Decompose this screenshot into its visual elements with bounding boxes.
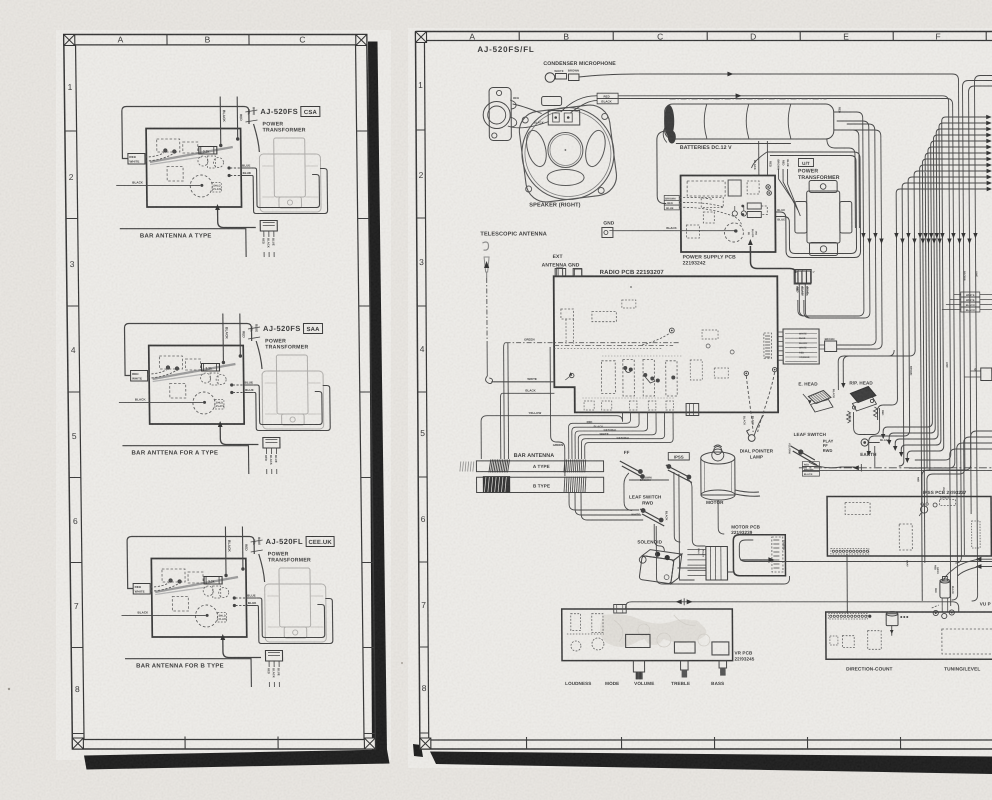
connector block wires [687, 549, 706, 551]
trimmer VR1 dashed [201, 373, 211, 383]
ipss pcb pin row [831, 549, 869, 555]
wire fan radio pcb to bar antenna [569, 412, 631, 459]
wire dashed to transistors [145, 153, 164, 157]
psu speaker circle dashed [724, 223, 743, 242]
wire long B [626, 602, 959, 612]
vr pcb treble pot [674, 642, 695, 653]
wire speaker to label box [561, 96, 598, 112]
record playback head RP [850, 387, 876, 403]
trimmer VR1 dashed [203, 586, 213, 596]
wire red vertical [239, 314, 242, 355]
main PCB board [149, 346, 244, 425]
wire to transformer [256, 341, 262, 369]
wire ff brown [629, 479, 669, 481]
radio PCB 22193207 board [554, 276, 778, 412]
wire battery to bundle red [811, 112, 864, 316]
wire black vertical [219, 97, 222, 145]
transistor cluster [933, 610, 938, 615]
label box red/black [597, 93, 618, 98]
ipss entry pins [921, 497, 923, 504]
wire loop to mains [127, 537, 255, 589]
connector CN2 below transformer [260, 221, 277, 232]
dust specks [8, 688, 10, 690]
component block dashed 2 [183, 142, 198, 153]
wire green down to b bar [550, 347, 565, 476]
wire loop around transformer [254, 385, 322, 425]
power transformer T1 outline [262, 371, 324, 429]
wire rp head loop [853, 408, 879, 435]
radio pcb IF can 2 [623, 360, 635, 397]
ipss pcb dotted rect [972, 521, 981, 548]
bar antenna label line [122, 446, 248, 474]
direction pcb big dashed [942, 629, 992, 654]
wire long A [739, 546, 992, 562]
wire speaker red to bundle [618, 96, 951, 460]
wire blue 2 [228, 174, 231, 177]
radio pcb IF can 3 [643, 360, 655, 397]
vr pcb volume pot [626, 634, 650, 647]
wire black gnd to psu [613, 230, 735, 232]
page shadow bottom of right panel [430, 752, 992, 775]
IPSS PCB 22193237 board [827, 497, 991, 557]
wire black horizontal [122, 614, 206, 616]
direction pcb dashed parts [830, 636, 838, 645]
wire cn radio to bundle [798, 300, 804, 316]
wire e.head up [838, 350, 894, 390]
wire leaf play to chassis [809, 462, 855, 468]
speaker hole dashed circle [190, 175, 212, 197]
resistor R801 [199, 147, 217, 155]
transistor Q2 [178, 580, 181, 583]
label boxes top right [961, 292, 980, 297]
bar antenna B type [477, 477, 604, 492]
speaker SP right cone [522, 108, 615, 200]
bar antenna label line [120, 229, 246, 257]
speaker hole dashed circle [195, 605, 217, 627]
transistor Q1 [169, 579, 172, 582]
wire bars down to leaf switch [569, 493, 639, 511]
wire battery to bundle 3 [834, 130, 860, 228]
wire red vertical [236, 97, 239, 138]
wire black vertical [224, 527, 227, 575]
vr pcb bass pot [712, 642, 729, 655]
connector CN1 red/white [133, 584, 150, 595]
connector pads dashed [212, 183, 221, 193]
wire motor right curves [735, 490, 759, 492]
battery pack [665, 104, 834, 139]
radio pcb transistor left [570, 373, 574, 377]
speaker SP right frame [517, 103, 619, 204]
trimmer VR2 dashed [216, 375, 226, 385]
border frame right panel [415, 31, 992, 33]
psu blue output dots [766, 185, 770, 189]
transistor Q2 [175, 367, 178, 370]
wire bracket to terminal [513, 104, 542, 114]
wire microphone to right bundle [579, 74, 961, 563]
connector CN2 below transformer [263, 438, 280, 449]
psu transistors [732, 211, 737, 216]
component dashed small [213, 586, 221, 598]
resistor R801 [204, 577, 222, 585]
main PCB board [151, 559, 246, 638]
wire red vertical [241, 527, 244, 568]
leaf switch FF [620, 461, 642, 473]
radio pcb top tabs [557, 268, 563, 276]
radio pcb dashed extras [622, 300, 636, 308]
wire with arrow to pcb bottom [220, 427, 258, 445]
wire psu output heavy [750, 246, 795, 273]
wire off-page entry 2 [924, 81, 992, 497]
wire bundle verticals lower [875, 130, 876, 339]
wire blue 1 [233, 596, 236, 599]
wire with arrow to pcb bottom [223, 640, 261, 658]
radio pcb transistors [623, 366, 627, 370]
solenoid SL1 [637, 548, 682, 584]
wire off-page entry 1 [968, 76, 992, 602]
direction pcb pin row [828, 614, 867, 620]
border frame left panel [64, 35, 376, 750]
component dashed small [210, 373, 218, 385]
psu connector labels left [664, 196, 679, 201]
component block dashed 2 [188, 572, 203, 583]
resistor R801 [201, 364, 219, 372]
radio pcb wire to pin [642, 333, 670, 345]
erase head E [808, 391, 831, 404]
trimmer VR2 dashed [219, 588, 229, 598]
wire ipss to direction [846, 554, 848, 614]
trimmer VR2 dashed [213, 158, 223, 168]
wire blue 1 [227, 166, 230, 169]
leaf switch play sym [791, 446, 815, 460]
treble shaft [681, 661, 689, 670]
connector SP right edge [981, 368, 992, 381]
volume shaft [633, 661, 644, 672]
wire dial lamp dashed [746, 376, 753, 432]
wire battery bottom to psu [758, 141, 760, 176]
component block dashed [162, 569, 185, 582]
power supply PCB 22193242 board [681, 176, 776, 253]
wire blue 1 [230, 383, 233, 386]
speaker hole dashed circle [193, 392, 215, 414]
earth terminal right [861, 439, 868, 446]
page shadow fragment [413, 744, 423, 757]
wire black horizontal [119, 401, 203, 403]
wires multi-pin to pcb [778, 331, 783, 333]
motor PCB 22193239 board [733, 535, 785, 576]
motor M1 [701, 458, 735, 495]
connector block to motor pcb [706, 547, 728, 581]
wire bundle fan right [942, 117, 989, 121]
wire speaker black to bundle [618, 99, 955, 469]
DIRECTION-COUNT PCB board [826, 612, 992, 659]
direction pcb capacitor [886, 614, 898, 626]
speaker terminal block [542, 97, 562, 106]
wire loop around transformer U/T [767, 152, 861, 258]
transistor Q1 [164, 149, 167, 152]
wire solenoid to connector [677, 567, 705, 569]
wire blue 2 [230, 391, 233, 394]
wire off-page entry 3 [920, 86, 992, 496]
trimmer VR1 dashed [198, 156, 208, 166]
ipss pcb parts [940, 500, 956, 506]
transistor Q2 [173, 150, 176, 153]
vr pcb ghost traces [600, 614, 707, 647]
page shadow bottom of left panel [84, 750, 390, 770]
radio pcb dashed channel [565, 319, 567, 344]
ipss pcb dashed 2 [899, 524, 912, 550]
connector CN1 red/white [128, 154, 145, 165]
wire dashed to transistors [150, 583, 169, 587]
wire loop around transformer [256, 598, 324, 638]
transistor Q1 [166, 366, 169, 369]
label U/T power transformer [798, 159, 813, 167]
rp head springs [847, 411, 851, 423]
power transformer T1 outline [259, 154, 321, 212]
wire bundle arrow row [861, 233, 865, 239]
motor pcb pin strip [772, 537, 783, 572]
psu component dashed blocks [687, 181, 725, 196]
pcb trace bus [152, 364, 235, 379]
wire blue 2 [233, 604, 236, 607]
wire to transformer [254, 124, 260, 152]
wire antenna lead [486, 278, 488, 345]
speaker mounting bracket [489, 88, 511, 141]
wire loop bottom motor area [656, 526, 789, 584]
pcb trace bus [155, 577, 238, 592]
label IPSS boxed [668, 453, 689, 460]
pcb trace bus [150, 147, 233, 162]
wire battery left loop [657, 131, 667, 204]
radio pcb bottom connector [686, 404, 699, 416]
wire ff down to leaf rwd [624, 473, 632, 511]
component block dashed [159, 356, 182, 369]
component block dashed [157, 139, 180, 152]
power transformer U/T body [809, 181, 837, 193]
wire ipss loop to motor pcb [687, 479, 705, 546]
radio pcb right pin strip [764, 333, 772, 358]
wire left vertical pair [504, 343, 507, 459]
wire leaf to solenoid [654, 524, 664, 551]
ipss pcb transistor [920, 506, 927, 513]
psu resistors right [747, 203, 761, 209]
VR PCB 22193245 board [562, 609, 733, 661]
vr pcb top tab [614, 605, 627, 614]
connector pads dashed [217, 613, 226, 623]
connector pads dashed [215, 400, 224, 410]
connector CN radio top [794, 271, 811, 284]
psu dashed wires from connector [679, 197, 713, 199]
component dashed small [207, 156, 215, 168]
condenser microphone MIC1 [545, 73, 555, 83]
main PCB board [146, 129, 241, 208]
wire black horizontal [116, 184, 200, 186]
power transformer T1 outline [265, 584, 327, 642]
wire motor to motor pcb [718, 500, 724, 534]
wire loop to mains [122, 107, 250, 159]
radio pcb bus dash-dot [554, 345, 673, 347]
connector CN below psu [795, 270, 811, 284]
connector CN2 below transformer [265, 651, 282, 662]
telescopic antenna rod [482, 242, 488, 250]
bar antenna label line [125, 659, 251, 687]
wire battery to bundle 2 [809, 121, 870, 318]
radio pcb dashed module 1 [561, 309, 574, 319]
brown block connector [825, 341, 837, 352]
capacitor block dashed [172, 597, 188, 612]
capacitor block dashed [170, 384, 186, 399]
radio pcb IF can 1 [601, 361, 615, 394]
radio pcb IF can 4 [666, 361, 678, 396]
bass shaft [719, 661, 727, 668]
leaf switch IPSS [666, 465, 690, 478]
wire arrow lines right [979, 558, 992, 560]
ipss pcb dashed 1 [845, 503, 870, 515]
radio pcb dashed module 2 [592, 312, 616, 322]
bar antenna A type [476, 461, 603, 472]
vr pcb dashed parts [571, 614, 581, 631]
connector CN1 red/white [131, 371, 148, 382]
wire loop around transformer [251, 168, 319, 208]
leaf switch RWD [640, 509, 662, 521]
wire dashed to transistors [148, 370, 167, 374]
wire lower entries right [971, 431, 992, 514]
radio pcb lamp pins [744, 371, 748, 375]
wire to transformer [259, 554, 265, 582]
capacitor VU area [940, 579, 950, 583]
wire chassis dash-dot [799, 467, 992, 469]
capacitor block dashed [167, 167, 183, 182]
wire loop to mains [124, 324, 252, 376]
wire black vertical [222, 314, 225, 362]
motor pcb arrow [740, 559, 768, 561]
page shadow right of left panel [368, 42, 387, 754]
component block dashed 2 [185, 359, 200, 370]
wire connector to bundle [799, 284, 858, 316]
dial pointer lamp LP1 [748, 435, 755, 442]
connector multi-pin CN5 [783, 329, 819, 364]
wire with arrow to pcb bottom [218, 210, 256, 228]
radio pcb bottom pads [584, 401, 594, 410]
ext antenna terminals [555, 269, 566, 277]
